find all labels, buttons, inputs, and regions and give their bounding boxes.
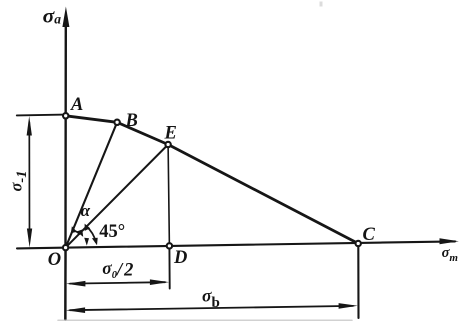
- svg-text:45°: 45°: [99, 222, 125, 242]
- wire: sigma_a vertical axis: [64, 22, 67, 320]
- svg-text:E: E: [164, 124, 177, 144]
- svg-text:σa: σa: [43, 4, 62, 28]
- node C: [356, 241, 361, 246]
- node B: [114, 120, 119, 125]
- wire: horizontal extension line left of A: [17, 114, 66, 117]
- curve A-B-E-C (limit curve): [66, 116, 359, 244]
- svg-text:σ-1: σ-1: [6, 171, 30, 192]
- svg-text:O: O: [48, 250, 61, 270]
- node E: [165, 142, 170, 147]
- svg-text:B: B: [125, 111, 138, 131]
- wire: ray O to B: [66, 122, 118, 247]
- node O: [63, 245, 68, 250]
- wire: extension below C: [357, 244, 359, 319]
- svg-text:C: C: [363, 225, 376, 245]
- wire: extension below O: [64, 248, 66, 320]
- dimension line sigma_0/2: [70, 282, 165, 283]
- arrowhead of sigma_a axis: [62, 7, 69, 28]
- svg-text:A: A: [70, 95, 83, 115]
- svg-text:σm: σm: [442, 245, 459, 264]
- arrowhead of sigma_m axis: [440, 238, 459, 244]
- wire: vertical line E to D: [168, 145, 169, 246]
- wire: extension below D: [168, 246, 170, 289]
- angle arc 45deg (between OE ray and axis): [86, 226, 96, 242]
- scan artifact: faint dot top: [320, 2, 323, 7]
- svg-text:σb: σb: [202, 285, 220, 311]
- node A: [63, 113, 68, 118]
- angle arc alpha (between OB and OE rays): [73, 230, 79, 234]
- small arrowhead to axis (45deg mark inner): [84, 238, 89, 246]
- svg-text:σ0/2: σ0/2: [102, 258, 135, 281]
- wire: ray O to E (45 degrees): [66, 145, 169, 248]
- dimension line sigma_b: [70, 306, 353, 310]
- scan artifact: faint streak bottom: [58, 319, 352, 321]
- svg-text:D: D: [173, 248, 187, 268]
- dimension line sigma_-1 (vertical, double arrow): [28, 122, 30, 241]
- node D: [167, 243, 172, 248]
- wire: sigma_m horizontal axis: [17, 241, 455, 248]
- svg-text:α: α: [81, 201, 91, 220]
